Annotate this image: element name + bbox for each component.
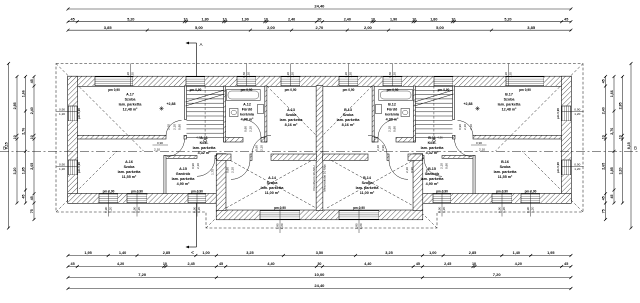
svg-text:1,20: 1,20	[574, 112, 580, 116]
svg-text:7,20: 7,20	[138, 272, 147, 277]
svg-text:10: 10	[371, 17, 375, 21]
svg-text:1,20: 1,20	[442, 207, 446, 213]
partition bath/A.13	[265, 86, 267, 142]
svg-text:B.13: B.13	[344, 108, 352, 112]
svg-text:2,10: 2,10	[260, 145, 264, 151]
svg-text:2,40: 2,40	[30, 107, 34, 114]
door arc B.16	[455, 139, 473, 157]
door arc A.13	[252, 135, 271, 154]
dim row top medium	[68, 29, 571, 31]
svg-text:0,90: 0,90	[444, 163, 448, 169]
svg-text:1,20: 1,20	[359, 223, 363, 229]
svg-text:Szoba: Szoba	[124, 165, 136, 169]
svg-text:1,40: 1,40	[119, 251, 126, 255]
window stacks below protrusion wall	[279, 208, 281, 234]
svg-text:4,20: 4,20	[117, 262, 124, 266]
svg-text:2,10: 2,10	[469, 124, 473, 130]
svg-text:0,90: 0,90	[476, 141, 482, 145]
window labels left wall	[56, 111, 77, 113]
svg-text:45: 45	[21, 195, 25, 199]
partition A.16/A.15	[164, 156, 166, 194]
door arc A.17	[166, 121, 182, 137]
svg-text:3,50: 3,50	[316, 251, 323, 255]
svg-text:24,40: 24,40	[314, 283, 325, 288]
svg-text:45: 45	[610, 195, 614, 199]
svg-text:2,10: 2,10	[387, 126, 391, 132]
svg-text:B: B	[3, 146, 6, 151]
svg-text:0,90: 0,90	[381, 145, 385, 151]
svg-text:2,10: 2,10	[154, 148, 160, 152]
gardrob A.15 north wall	[164, 156, 197, 159]
svg-text:1,20: 1,20	[393, 72, 397, 78]
level mark +2,88 A	[159, 108, 163, 110]
partition A.17/stair	[185, 86, 187, 120]
svg-text:pm 0,90: pm 0,90	[519, 88, 531, 92]
svg-text:pm 0,90: pm 0,90	[387, 88, 399, 92]
axis line B	[0, 150, 640, 152]
left dim column	[33, 77, 35, 220]
svg-text:4,90 m²: 4,90 m²	[426, 182, 439, 186]
svg-text:8,15: 8,15	[627, 142, 631, 149]
svg-text:Szoba: Szoba	[267, 181, 279, 185]
svg-text:1,66: 1,66	[610, 90, 614, 97]
svg-text:+2,88: +2,88	[166, 102, 175, 106]
svg-text:Mészvakolat 10 följa: Mészvakolat 10 följa	[323, 164, 327, 192]
svg-text:0,90: 0,90	[392, 126, 396, 132]
svg-text:A.13: A.13	[287, 108, 295, 112]
door arc bath B.12	[378, 120, 396, 138]
partition bath/B.13	[372, 86, 374, 142]
svg-text:4,98 m²: 4,98 m²	[241, 118, 254, 122]
svg-text:B: B	[634, 146, 637, 151]
svg-text:lam. parketta: lam. parketta	[421, 177, 445, 181]
svg-text:1,20: 1,20	[504, 72, 508, 78]
svg-text:2,10: 2,10	[173, 124, 177, 130]
svg-text:0,90: 0,90	[178, 124, 182, 130]
svg-text:4,98 m²: 4,98 m²	[386, 118, 399, 122]
staircase B	[415, 89, 452, 91]
svg-text:Szoba: Szoba	[504, 98, 516, 102]
svg-text:1,20: 1,20	[291, 72, 295, 78]
section mark A bottom	[196, 203, 198, 247]
svg-text:pm 0,90: pm 0,90	[343, 88, 355, 92]
svg-text:Szoba: Szoba	[362, 181, 374, 185]
svg-text:45: 45	[416, 262, 420, 266]
wall B.13/B.14 and corridor south	[323, 154, 368, 160]
svg-text:45: 45	[219, 262, 223, 266]
protrusion east wall	[413, 154, 422, 210]
svg-text:45: 45	[71, 17, 75, 21]
svg-text:lam. parketta: lam. parketta	[337, 118, 361, 122]
svg-text:B.14: B.14	[363, 176, 372, 180]
svg-text:Porotherm 30 AKU: Porotherm 30 AKU	[312, 165, 316, 190]
svg-text:5,00: 5,00	[195, 25, 204, 30]
svg-text:2,65: 2,65	[30, 163, 34, 170]
svg-text:0,60: 0,60	[242, 72, 246, 78]
svg-text:1,75: 1,75	[211, 169, 215, 175]
dim row top total 24,40	[68, 8, 571, 10]
svg-text:1,00: 1,00	[202, 251, 209, 255]
svg-text:A: A	[190, 251, 195, 254]
svg-text:4,40: 4,40	[364, 262, 371, 266]
svg-text:2,85: 2,85	[469, 251, 476, 255]
door arc A.16	[167, 139, 185, 157]
svg-text:2,10: 2,10	[167, 124, 171, 130]
svg-text:30: 30	[317, 262, 321, 266]
roof overhang dashed outline	[56, 64, 583, 229]
top exterior wall	[68, 77, 571, 87]
wall between A.17 and A.16	[77, 135, 166, 139]
roof valley dashed B.14 X	[327, 158, 417, 208]
svg-text:2,10: 2,10	[231, 167, 235, 173]
dim row bottom 3	[68, 277, 571, 279]
svg-text:2,85: 2,85	[13, 102, 17, 109]
svg-text:pm 0,90: pm 0,90	[77, 108, 81, 120]
svg-text:A: A	[199, 42, 202, 47]
svg-text:2,10: 2,10	[196, 163, 200, 169]
svg-text:1,20: 1,20	[59, 112, 65, 116]
right dim column	[605, 77, 607, 220]
svg-text:0,90: 0,90	[226, 167, 230, 173]
svg-text:Szoba: Szoba	[125, 98, 137, 102]
svg-text:Gardrób: Gardrób	[176, 172, 191, 176]
svg-text:2,10: 2,10	[405, 167, 409, 173]
svg-text:B.11: B.11	[428, 136, 436, 140]
svg-text:0,90: 0,90	[157, 141, 163, 145]
left exterior wall	[68, 77, 77, 204]
svg-text:Fürdő: Fürdő	[387, 108, 398, 112]
svg-text:1,66: 1,66	[21, 90, 25, 97]
partition B.17/stair	[453, 86, 455, 120]
door arc A.14	[231, 160, 250, 179]
svg-text:3,20: 3,20	[13, 168, 17, 175]
window stacks above top wall	[130, 64, 132, 87]
svg-text:1,20: 1,20	[109, 207, 113, 213]
svg-text:4,32 m²: 4,32 m²	[426, 151, 439, 155]
svg-text:45: 45	[71, 262, 75, 266]
svg-text:2,70: 2,70	[316, 25, 325, 30]
svg-text:0,90: 0,90	[574, 107, 580, 111]
door arc bath A.12	[243, 120, 261, 138]
svg-text:2,76: 2,76	[610, 128, 614, 135]
svg-text:45: 45	[30, 196, 34, 200]
svg-text:0,90: 0,90	[437, 207, 441, 213]
svg-text:2,40: 2,40	[344, 17, 351, 21]
svg-text:A.17: A.17	[126, 93, 134, 97]
svg-text:12,48 m²: 12,48 m²	[502, 108, 518, 112]
svg-text:30: 30	[317, 17, 321, 21]
svg-text:4,90 m²: 4,90 m²	[177, 182, 190, 186]
door arc B.17	[458, 121, 474, 137]
svg-text:Szoba: Szoba	[500, 165, 512, 169]
svg-text:10: 10	[451, 17, 455, 21]
svg-text:2,65: 2,65	[601, 163, 605, 170]
bath A.12 south wall	[224, 138, 243, 143]
svg-text:1,20: 1,20	[349, 72, 353, 78]
svg-text:B.16: B.16	[501, 160, 509, 164]
bath B.12 south wall	[372, 138, 378, 143]
svg-text:0,90: 0,90	[104, 207, 108, 213]
svg-text:45: 45	[564, 262, 568, 266]
svg-text:8,16 m²: 8,16 m²	[342, 123, 355, 127]
svg-text:Szoba: Szoba	[286, 113, 298, 117]
svg-text:pm 0,90: pm 0,90	[190, 88, 202, 92]
svg-text:lam. parketta: lam. parketta	[498, 103, 522, 107]
door arc B.14	[389, 160, 408, 179]
svg-text:0,90: 0,90	[458, 124, 462, 130]
svg-text:0,90: 0,90	[410, 167, 414, 173]
svg-text:1,80: 1,80	[354, 223, 358, 229]
svg-text:2,10: 2,10	[479, 148, 485, 152]
svg-text:1,20: 1,20	[137, 207, 141, 213]
partition B.16/B.15	[473, 156, 475, 194]
svg-text:45: 45	[30, 79, 34, 83]
svg-text:75: 75	[601, 209, 605, 213]
svg-text:B.17: B.17	[505, 93, 513, 97]
svg-text:8,16 m²: 8,16 m²	[285, 123, 298, 127]
svg-text:10: 10	[223, 17, 227, 21]
svg-text:1,85: 1,85	[610, 167, 614, 174]
svg-text:pm 0,90: pm 0,90	[556, 162, 560, 174]
dim row bottom 1	[68, 255, 571, 257]
svg-text:75: 75	[30, 209, 34, 213]
svg-text:10: 10	[472, 262, 476, 266]
svg-text:0,90: 0,90	[255, 145, 259, 151]
svg-text:0,90: 0,90	[243, 126, 247, 132]
svg-text:5,20: 5,20	[127, 17, 134, 21]
svg-text:1,90: 1,90	[390, 17, 397, 21]
svg-text:1,95: 1,95	[547, 251, 554, 255]
svg-text:7,20: 7,20	[493, 272, 502, 277]
svg-text:Szoba: Szoba	[343, 113, 355, 117]
svg-text:4,32 m²: 4,32 m²	[198, 151, 211, 155]
svg-text:lam. parketta: lam. parketta	[494, 170, 518, 174]
svg-text:A.15: A.15	[179, 167, 187, 171]
svg-text:1,20: 1,20	[286, 72, 290, 78]
svg-text:10: 10	[264, 17, 268, 21]
svg-text:pm 0,90: pm 0,90	[241, 88, 253, 92]
svg-text:45: 45	[564, 17, 568, 21]
svg-text:2,00: 2,00	[267, 25, 276, 30]
svg-text:11,00 m²: 11,00 m²	[360, 191, 375, 195]
svg-text:10: 10	[601, 135, 605, 139]
svg-text:lam. parketta: lam. parketta	[421, 146, 445, 150]
svg-text:10: 10	[412, 17, 416, 21]
svg-text:pm 0,90: pm 0,90	[77, 162, 81, 174]
wall between B.17 and B.16	[453, 135, 456, 139]
gardrob B.15 north wall	[423, 156, 425, 159]
svg-text:+2,88: +2,88	[463, 102, 472, 106]
svg-text:1,20: 1,20	[344, 72, 348, 78]
svg-text:3,20: 3,20	[618, 168, 622, 175]
svg-text:1,20: 1,20	[59, 167, 65, 171]
svg-text:1,20: 1,20	[197, 207, 201, 213]
svg-text:2,10: 2,10	[376, 145, 380, 151]
svg-text:2,45: 2,45	[188, 262, 195, 266]
svg-text:0,90: 0,90	[191, 163, 195, 169]
dim row bottom 4 total	[68, 288, 571, 290]
svg-text:1,20: 1,20	[502, 207, 506, 213]
svg-text:4,40: 4,40	[267, 262, 274, 266]
svg-text:2,85: 2,85	[163, 251, 170, 255]
bathtub/sink/wc B.12	[379, 90, 413, 101]
svg-text:0,60: 0,60	[388, 72, 392, 78]
svg-text:2,45: 2,45	[444, 262, 451, 266]
window stacks below bottom side walls	[108, 191, 110, 217]
svg-text:0,90: 0,90	[59, 162, 65, 166]
bathtub/sink/wc A.12	[227, 90, 261, 101]
svg-text:1,35: 1,35	[509, 72, 513, 78]
svg-text:1,80: 1,80	[202, 17, 209, 21]
svg-text:0,90: 0,90	[574, 162, 580, 166]
svg-text:10: 10	[618, 135, 622, 139]
svg-text:pm 0,90: pm 0,90	[108, 88, 120, 92]
svg-text:3,25: 3,25	[385, 251, 392, 255]
svg-text:10: 10	[13, 135, 17, 139]
svg-text:3,85: 3,85	[527, 25, 536, 30]
svg-text:A.11: A.11	[200, 136, 208, 140]
svg-text:lam. parketta: lam. parketta	[261, 186, 285, 190]
roof valley dashed A.14 X	[226, 158, 316, 208]
svg-text:1,20: 1,20	[126, 72, 130, 78]
svg-text:pm 0,90: pm 0,90	[556, 108, 560, 120]
svg-text:10,00: 10,00	[314, 272, 325, 277]
svg-text:B.12: B.12	[388, 103, 396, 107]
svg-text:lam. parketta: lam. parketta	[193, 146, 217, 150]
svg-text:lam. parketta: lam. parketta	[356, 186, 380, 190]
svg-text:lam. parketta: lam. parketta	[172, 177, 196, 181]
svg-text:0,90: 0,90	[132, 207, 136, 213]
svg-text:10: 10	[163, 262, 167, 266]
svg-text:2,10: 2,10	[463, 124, 467, 130]
svg-text:4,20: 4,20	[515, 262, 522, 266]
svg-text:1,80: 1,80	[275, 223, 279, 229]
svg-text:kerámia: kerámia	[240, 113, 255, 117]
svg-text:A.12: A.12	[243, 103, 251, 107]
svg-text:B.15: B.15	[428, 167, 436, 171]
dim row top fine	[68, 21, 571, 23]
svg-text:kerámia: kerámia	[385, 113, 400, 117]
section mark A top	[196, 43, 198, 77]
svg-text:11,00 m²: 11,00 m²	[265, 191, 280, 195]
svg-text:lam. parketta: lam. parketta	[280, 118, 304, 122]
svg-text:1,80: 1,80	[430, 17, 437, 21]
svg-text:2,85: 2,85	[618, 102, 622, 109]
svg-text:1,75: 1,75	[425, 169, 429, 175]
svg-text:Közl.: Közl.	[428, 141, 437, 145]
svg-text:0,90: 0,90	[59, 107, 65, 111]
svg-text:0,90: 0,90	[497, 207, 501, 213]
svg-text:2,10: 2,10	[248, 126, 252, 132]
svg-text:5,00: 5,00	[436, 25, 445, 30]
roof hip dashed right	[496, 64, 584, 152]
svg-text:0,90: 0,90	[526, 207, 530, 213]
svg-text:Közl.: Közl.	[200, 141, 209, 145]
svg-text:1,20: 1,20	[574, 167, 580, 171]
svg-text:2,10: 2,10	[439, 163, 443, 169]
dim row bottom 2	[68, 266, 571, 268]
svg-text:A.16: A.16	[125, 160, 133, 164]
svg-text:12,48 m²: 12,48 m²	[123, 108, 139, 112]
party wall centre Porotherm 30	[316, 86, 322, 210]
svg-text:3,85: 3,85	[104, 25, 113, 30]
bottom exterior wall left section	[68, 194, 217, 203]
svg-text:2,76: 2,76	[21, 128, 25, 135]
svg-text:24,40: 24,40	[314, 4, 325, 9]
bottom exterior wall right section	[423, 194, 572, 203]
svg-text:1,90: 1,90	[242, 17, 249, 21]
svg-text:1,20: 1,20	[531, 207, 535, 213]
svg-text:3,25: 3,25	[246, 251, 253, 255]
svg-text:Fürdő: Fürdő	[242, 108, 253, 112]
bottom exterior wall centre protrusion	[217, 210, 423, 219]
svg-text:A.14: A.14	[268, 176, 277, 180]
svg-text:45: 45	[601, 196, 605, 200]
svg-text:2,00: 2,00	[364, 25, 373, 30]
level mark +2,88 B	[475, 108, 479, 110]
svg-text:lam. parketta: lam. parketta	[119, 103, 143, 107]
right exterior wall	[562, 77, 571, 204]
svg-text:1,85: 1,85	[21, 167, 25, 174]
svg-text:5,20: 5,20	[504, 17, 511, 21]
svg-text:lam. parketta: lam. parketta	[118, 170, 142, 174]
roof hip dashed left	[56, 64, 144, 152]
door arc B.13	[368, 135, 387, 154]
svg-text:11,55 m²: 11,55 m²	[122, 175, 137, 179]
door arc A.15 gardrob	[197, 158, 215, 176]
door arc B.15 gardrob	[424, 158, 442, 176]
svg-text:1,40: 1,40	[513, 251, 520, 255]
protrusion west wall	[217, 154, 226, 210]
svg-text:10: 10	[183, 17, 187, 21]
svg-text:1,20: 1,20	[280, 223, 284, 229]
svg-text:1,20: 1,20	[247, 72, 251, 78]
svg-text:10: 10	[30, 135, 34, 139]
roof hip dashed near party wall	[267, 86, 317, 136]
staircase A	[187, 89, 224, 91]
wall A.13/A.14 and corridor south	[217, 154, 232, 160]
svg-text:0,90: 0,90	[192, 207, 196, 213]
svg-text:1,35: 1,35	[131, 72, 135, 78]
svg-text:1,00: 1,00	[429, 251, 436, 255]
svg-text:2,40: 2,40	[601, 107, 605, 114]
svg-text:pm 0,90: pm 0,90	[285, 88, 297, 92]
svg-text:pm 0,90: pm 0,90	[438, 88, 450, 92]
roof hip dashed centre terrace	[206, 208, 226, 228]
svg-text:11,55 m²: 11,55 m²	[498, 175, 513, 179]
svg-text:45: 45	[601, 79, 605, 83]
partition stair/bath A	[224, 86, 226, 142]
partition stair/bath B	[413, 86, 415, 142]
svg-text:2,40: 2,40	[288, 17, 295, 21]
svg-text:1,95: 1,95	[84, 251, 91, 255]
